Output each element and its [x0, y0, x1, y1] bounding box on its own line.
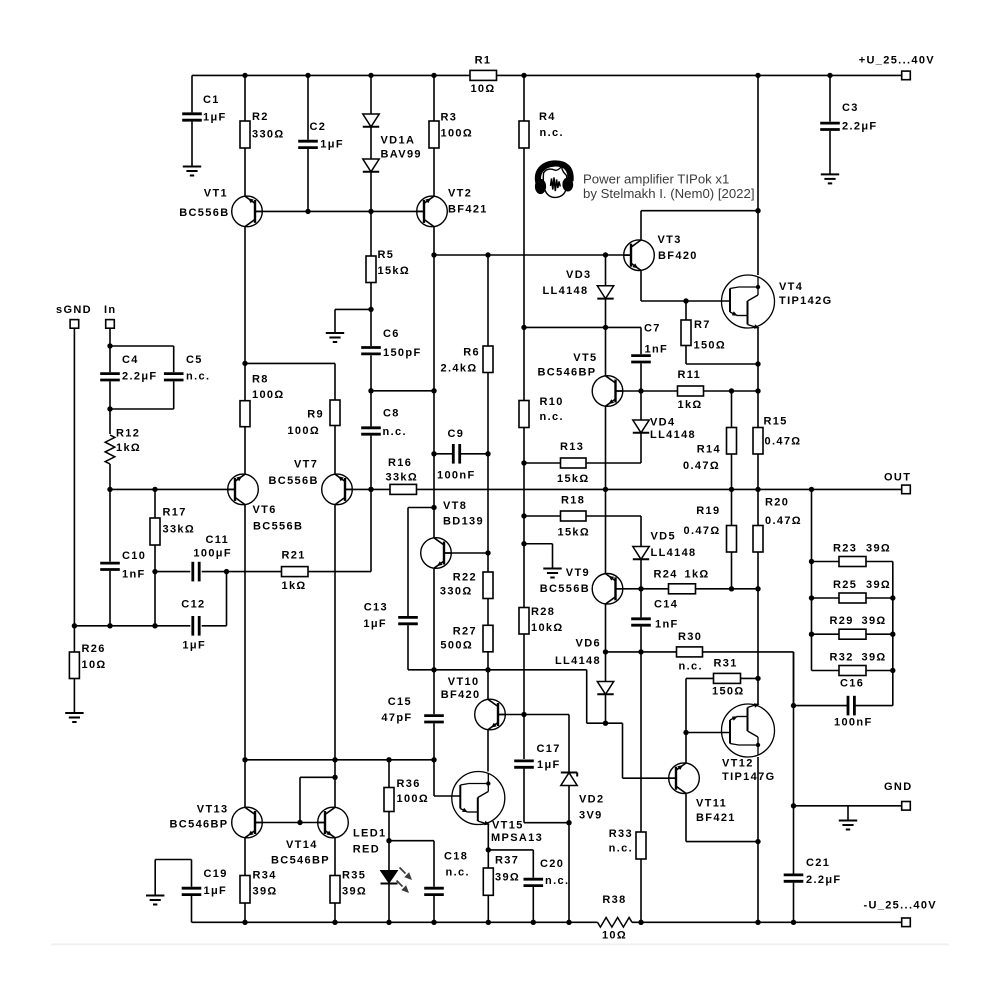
diode VD2 zener	[561, 773, 605, 822]
wire VT1 collector	[244, 227, 246, 364]
junction top rail	[521, 73, 526, 78]
svg-text:1μF: 1μF	[204, 885, 228, 897]
capacitor C19	[182, 868, 228, 897]
svg-text:1nF: 1nF	[655, 619, 679, 631]
wire R13 row	[524, 433, 641, 463]
svg-text:R19: R19	[696, 505, 720, 517]
junction ladder left rail	[809, 559, 814, 564]
wire R3 to VT2	[433, 148, 435, 196]
svg-text:100nF: 100nF	[437, 470, 476, 482]
wire C20 branch	[488, 850, 533, 922]
svg-text:GND: GND	[884, 781, 913, 793]
resistor R17	[150, 507, 195, 546]
svg-text:R6: R6	[463, 347, 480, 359]
junction In C4 bottom	[107, 406, 112, 411]
transistor VT13 BC546BP	[170, 804, 263, 838]
svg-text:n.c.: n.c.	[679, 661, 703, 673]
junction ladder right rail	[890, 668, 895, 673]
wire VT4 emitter	[757, 328, 759, 391]
svg-text:39Ω: 39Ω	[862, 615, 887, 627]
svg-text:n.c.: n.c.	[186, 371, 210, 383]
svg-text:C17: C17	[537, 743, 561, 755]
transistor VT11 BF421	[668, 763, 735, 824]
wire C21 leads	[793, 652, 795, 922]
wire C15 leads	[433, 670, 435, 760]
capacitor C13	[363, 602, 417, 631]
junction In C12	[107, 623, 112, 628]
capacitor C16	[834, 678, 873, 729]
wire VT13-VT14 base tie	[255, 777, 335, 822]
junction base row VD1A	[368, 209, 373, 214]
wire C1 branch	[191, 75, 193, 166]
wire R29 row	[812, 633, 893, 635]
wire C13 branch	[408, 508, 434, 670]
svg-text:In: In	[104, 304, 116, 316]
capacitor C2	[298, 121, 344, 151]
svg-text:39Ω: 39Ω	[866, 543, 891, 555]
svg-text:VT11: VT11	[696, 798, 727, 810]
wire R36-C15 row	[245, 759, 434, 761]
capacitor C11	[193, 534, 232, 581]
diode VD1A (lower)	[363, 135, 422, 172]
wire R8-R9 row	[245, 363, 335, 400]
svg-text:100Ω: 100Ω	[252, 389, 285, 401]
svg-text:C4: C4	[122, 354, 139, 366]
svg-text:LL4148: LL4148	[650, 429, 696, 441]
svg-text:100nF: 100nF	[834, 717, 873, 729]
svg-text:R21: R21	[282, 550, 306, 562]
junction node row C15	[431, 667, 436, 672]
svg-text:100Ω: 100Ω	[287, 425, 320, 437]
svg-text:1μF: 1μF	[320, 139, 344, 151]
junction bottom rail	[486, 920, 491, 925]
capacitor C14	[631, 599, 678, 631]
svg-text:R23: R23	[833, 543, 857, 555]
transistor VT8 BD139	[421, 500, 484, 568]
wire R19 leads	[731, 489, 733, 588]
junction R24 VD5 C14	[638, 586, 643, 591]
resistor R8	[240, 374, 285, 427]
svg-text:3V9: 3V9	[579, 810, 603, 822]
capacitor C5	[164, 354, 210, 383]
junction C16 left	[791, 703, 796, 708]
svg-text:VT10: VT10	[448, 676, 480, 688]
svg-text:C6: C6	[383, 328, 400, 340]
wire R17 leads	[154, 489, 156, 625]
capacitor C17	[514, 743, 561, 771]
resistor R37	[483, 855, 520, 896]
wire VT6 collector	[244, 505, 246, 760]
junction VT10 base C17	[521, 712, 526, 717]
svg-text:1kΩ: 1kΩ	[116, 442, 141, 454]
svg-text:1μF: 1μF	[363, 618, 387, 630]
svg-text:1kΩ: 1kΩ	[282, 580, 307, 592]
svg-text:15kΩ: 15kΩ	[378, 265, 411, 277]
svg-text:MPSA13: MPSA13	[491, 832, 543, 844]
svg-text:BC556B: BC556B	[540, 583, 590, 595]
diode VD3	[542, 269, 613, 299]
wire C6-C8 row	[371, 390, 434, 392]
capacitor C6	[361, 328, 421, 359]
svg-text:BD139: BD139	[443, 516, 484, 528]
svg-text:100μF: 100μF	[193, 548, 232, 560]
junction R16 left	[368, 487, 373, 492]
junction bottom rail	[791, 920, 796, 925]
svg-text:C1: C1	[203, 94, 220, 106]
junction ladder left rail	[809, 595, 814, 600]
ground C3	[821, 174, 839, 183]
pad GND	[902, 802, 911, 811]
junction VD4 top / VT5 base	[638, 388, 643, 393]
resistor R24	[654, 569, 710, 594]
svg-text:C10: C10	[122, 550, 146, 562]
junction GND row x793	[791, 803, 796, 808]
wire C7 branch	[640, 327, 642, 391]
svg-text:R28: R28	[531, 606, 555, 618]
junction VT2 collector / VT3 base row	[431, 252, 436, 257]
wire R14 leads	[731, 391, 733, 489]
transistor VT6 BC556B	[227, 474, 303, 532]
wire R22 leads	[487, 454, 489, 626]
resistor R23	[833, 543, 891, 567]
svg-text:R7: R7	[694, 319, 711, 331]
resistor R27	[440, 625, 493, 652]
svg-text:R9: R9	[307, 409, 324, 421]
logo headphones	[535, 163, 573, 197]
junction VD3 bottom	[603, 325, 608, 330]
wire C3 branch	[829, 75, 831, 174]
resistor R34	[240, 870, 278, 904]
svg-text:R27: R27	[453, 626, 477, 638]
resistor R14	[683, 428, 736, 473]
resistor R30	[677, 631, 703, 673]
junction VT2 collector / C13	[431, 505, 436, 510]
wire VT5 emitter	[605, 406, 607, 489]
svg-text:R22: R22	[453, 572, 477, 584]
wire R5 leads	[370, 211, 372, 571]
wire VD2 bottom lead	[568, 786, 570, 923]
svg-text:LL4148: LL4148	[651, 547, 697, 559]
junction R11-R14	[729, 388, 734, 393]
wire R33 leads	[640, 652, 642, 922]
svg-text:VT1: VT1	[204, 188, 228, 200]
junction row VT7col	[332, 757, 337, 762]
svg-text:by Stelmakh I. (Nem0) [2022]: by Stelmakh I. (Nem0) [2022]	[583, 186, 755, 201]
wire R5 ground branch	[335, 309, 371, 333]
svg-text:n.c.: n.c.	[383, 426, 407, 438]
junction bottom rail	[755, 920, 760, 925]
svg-text:TIP147G: TIP147G	[722, 771, 775, 783]
svg-text:VT6: VT6	[253, 504, 277, 516]
svg-text:15kΩ: 15kΩ	[558, 527, 591, 539]
capacitor C10	[100, 550, 146, 581]
wire R18 left lead	[523, 463, 525, 516]
svg-text:LL4148: LL4148	[542, 285, 588, 297]
svg-text:BC556B: BC556B	[269, 475, 319, 487]
junction R18 left	[521, 513, 526, 518]
svg-text:39Ω: 39Ω	[342, 886, 367, 898]
svg-text:39Ω: 39Ω	[495, 872, 520, 884]
wire C4-C5 loop	[110, 346, 174, 409]
svg-text:VT3: VT3	[658, 234, 682, 246]
wire R15 leads	[757, 391, 759, 489]
wire VT10 top	[487, 670, 489, 699]
wire C9 row	[434, 453, 488, 455]
svg-text:1nF: 1nF	[122, 569, 146, 581]
transistor VT4 TIP142G	[722, 275, 833, 329]
svg-text:R11: R11	[678, 369, 702, 381]
transistor VT5 BC546BP	[538, 352, 624, 406]
svg-text:R2: R2	[252, 111, 269, 123]
wire C19 branch	[155, 860, 191, 923]
wire VT12 collector lead	[757, 678, 759, 704]
junction R20 bottom x758	[755, 586, 760, 591]
wire OUT feedback row	[110, 488, 902, 490]
svg-text:R34: R34	[253, 870, 277, 882]
svg-text:R36: R36	[397, 778, 421, 790]
svg-text:VD1A: VD1A	[381, 135, 416, 147]
wire VT9 base row R24	[616, 588, 759, 590]
svg-text:C5: C5	[186, 354, 203, 366]
wire VT9 gnd branch	[524, 544, 553, 569]
svg-text:R13: R13	[560, 441, 584, 453]
junction R17 top	[152, 487, 157, 492]
junction ladder OUT	[809, 487, 814, 492]
wire VT12 base row	[686, 732, 729, 734]
svg-text:1kΩ: 1kΩ	[685, 569, 710, 581]
transistor VT10 BF420	[441, 676, 506, 730]
svg-text:R20: R20	[765, 497, 789, 509]
junction C15 bottom row	[431, 757, 436, 762]
wire x758 R24-R31	[757, 589, 759, 679]
wire VT8 emitter node row	[408, 670, 587, 723]
junction VT15 emitter C20	[486, 847, 491, 852]
svg-text:VD5: VD5	[651, 531, 676, 543]
junction node row VT10	[485, 667, 490, 672]
svg-text:n.c.: n.c.	[545, 875, 569, 887]
svg-text:1nF: 1nF	[645, 344, 669, 356]
wire R6 leads	[487, 255, 489, 454]
wire VT15 base	[434, 760, 460, 796]
pad -U_25...40V	[902, 918, 911, 927]
ground R26	[65, 713, 83, 722]
svg-text:0.47Ω: 0.47Ω	[684, 525, 721, 537]
resistor R4	[519, 111, 564, 148]
wire R4 top	[523, 75, 525, 121]
svg-text:2.4kΩ: 2.4kΩ	[441, 363, 478, 375]
wire VT5 base row R11	[616, 390, 759, 392]
resistor R18	[558, 495, 591, 539]
junction R8 top	[242, 361, 247, 366]
svg-text:39Ω: 39Ω	[866, 579, 891, 591]
junction top rail	[827, 73, 832, 78]
svg-text:1μF: 1μF	[537, 759, 561, 771]
capacitor C20	[524, 858, 570, 887]
svg-text:VT12: VT12	[722, 758, 754, 770]
resistor R7	[681, 319, 726, 352]
svg-text:C2: C2	[310, 121, 327, 133]
wire VT11 base row	[623, 777, 677, 779]
wire R35 bottom	[334, 903, 336, 922]
wire In column	[109, 328, 111, 626]
svg-text:R29: R29	[830, 615, 854, 627]
svg-text:C3: C3	[842, 102, 859, 114]
wire R28 column	[523, 516, 525, 823]
svg-text:-U_25...40V: -U_25...40V	[863, 900, 937, 912]
junction ladder right rail	[890, 595, 895, 600]
capacitor C18	[424, 851, 470, 895]
resistor R35	[330, 870, 367, 904]
wire R36 leads	[388, 760, 390, 841]
svg-text:TIP142G: TIP142G	[779, 295, 832, 307]
svg-text:VT4: VT4	[779, 281, 803, 293]
junction VD2 C17 bottom	[566, 820, 571, 825]
junction top rail	[755, 73, 760, 78]
svg-text:C12: C12	[181, 599, 205, 611]
wire C16 row	[794, 705, 893, 707]
svg-text:VT2: VT2	[448, 188, 472, 200]
svg-text:R10: R10	[540, 396, 564, 408]
junction row R36	[386, 757, 391, 762]
svg-text:n.c.: n.c.	[540, 411, 564, 423]
svg-text:150Ω: 150Ω	[694, 340, 727, 352]
svg-text:n.c.: n.c.	[540, 127, 564, 139]
wire VT5 collector	[605, 327, 607, 375]
resistor R32	[830, 652, 887, 676]
wire dogleg VD6 row	[587, 723, 623, 778]
junction sGND C12	[72, 623, 77, 628]
resistor R38	[598, 894, 633, 942]
pad OUT	[902, 485, 911, 494]
junction base row C2	[305, 209, 310, 214]
svg-text:R5: R5	[378, 249, 395, 261]
svg-text:VT9: VT9	[566, 567, 590, 579]
svg-text:R35: R35	[342, 870, 366, 882]
svg-text:VT14: VT14	[286, 839, 318, 851]
wire GND row	[794, 806, 902, 821]
junction ladder left rail	[809, 632, 814, 637]
junction ladder right rail	[890, 632, 895, 637]
resistor R21	[282, 550, 309, 593]
wire VT2 collector column	[433, 227, 435, 538]
svg-text:C20: C20	[540, 858, 564, 870]
svg-text:100Ω: 100Ω	[441, 128, 474, 140]
wire R8 leads	[244, 363, 246, 474]
svg-text:2.2μF: 2.2μF	[842, 121, 878, 133]
junction R11-x758	[755, 388, 760, 393]
svg-text:330Ω: 330Ω	[440, 586, 473, 598]
wire VT8 emitter	[433, 568, 435, 670]
capacitor C9	[437, 428, 476, 482]
svg-text:R15: R15	[764, 416, 788, 428]
svg-text:33kΩ: 33kΩ	[386, 472, 419, 484]
wire VT9 collector	[605, 489, 607, 573]
junction bottom rail	[386, 920, 391, 925]
ground C19	[146, 896, 164, 905]
wire R34 bottom	[244, 903, 246, 922]
transistor VT2 BF421	[416, 188, 487, 227]
svg-text:VT7: VT7	[294, 459, 318, 471]
junction R17 C12	[152, 623, 157, 628]
svg-text:C11: C11	[206, 534, 230, 546]
svg-text:BF421: BF421	[448, 204, 488, 216]
svg-text:R30: R30	[678, 631, 702, 643]
junction R13 left	[521, 460, 526, 465]
svg-text:33kΩ: 33kΩ	[163, 524, 196, 536]
diode VD4	[633, 417, 696, 442]
svg-text:39Ω: 39Ω	[862, 652, 887, 664]
junction VD6 bottom	[603, 721, 608, 726]
wire ladder right rail	[892, 562, 894, 706]
svg-text:0.47Ω: 0.47Ω	[683, 460, 720, 472]
wire R30 row	[606, 652, 794, 706]
resistor R25	[833, 579, 891, 603]
wire VD1A leads	[370, 75, 372, 211]
resistor R26	[69, 643, 106, 679]
svg-text:Power amplifier TIPok x1: Power amplifier TIPok x1	[583, 172, 729, 187]
svg-text:VD6: VD6	[576, 638, 601, 650]
svg-text:R31: R31	[714, 658, 738, 670]
svg-text:150pF: 150pF	[383, 347, 422, 359]
resistor R22	[440, 572, 493, 599]
svg-text:2.2μF: 2.2μF	[806, 874, 842, 886]
wire C18 branch	[389, 841, 434, 923]
svg-text:150Ω: 150Ω	[712, 686, 745, 698]
svg-text:R33: R33	[609, 828, 633, 840]
wire VT12 emitter	[757, 757, 759, 922]
svg-text:BF420: BF420	[441, 689, 481, 701]
capacitor C8	[361, 408, 407, 439]
svg-text:C19: C19	[204, 868, 228, 880]
resistor R36	[384, 778, 429, 812]
svg-text:R18: R18	[561, 495, 585, 507]
wire R9 to VT7	[334, 426, 336, 475]
svg-text:BF421: BF421	[696, 812, 736, 824]
resistor R31	[712, 658, 745, 698]
svg-text:R1: R1	[475, 55, 492, 67]
svg-text:VD3: VD3	[566, 269, 591, 281]
junction R14-R19 OUT	[729, 487, 734, 492]
wire VT1-VT2 base row	[255, 210, 424, 212]
resistor R9	[287, 400, 340, 437]
wire -U bottom rail	[192, 921, 902, 923]
svg-text:R26: R26	[82, 643, 106, 655]
svg-text:VT5: VT5	[573, 352, 597, 364]
wire VT11 emitter	[686, 794, 758, 842]
svg-text:39Ω: 39Ω	[253, 886, 278, 898]
svg-text:C18: C18	[444, 851, 468, 863]
resistor R10	[519, 396, 564, 428]
resistor R33	[609, 828, 646, 859]
diode VD6	[555, 638, 614, 695]
junction top rail	[242, 73, 247, 78]
junction In C4 top	[107, 343, 112, 348]
diode VD5	[633, 531, 697, 560]
transistor VT14 BC546BP	[271, 807, 348, 866]
wire ladder left rail	[811, 489, 813, 670]
svg-text:330Ω: 330Ω	[252, 129, 285, 141]
svg-text:LED1: LED1	[353, 828, 387, 840]
svg-text:R32: R32	[830, 652, 854, 664]
svg-text:sGND: sGND	[56, 304, 92, 316]
svg-text:0.47Ω: 0.47Ω	[765, 515, 802, 527]
resistor R20	[753, 497, 802, 553]
transistor VT9 BC556B	[540, 567, 623, 604]
wire VT14 top	[334, 760, 336, 807]
svg-text:C8: C8	[383, 408, 400, 420]
svg-text:100Ω: 100Ω	[397, 793, 430, 805]
junction row VT6col	[242, 757, 247, 762]
